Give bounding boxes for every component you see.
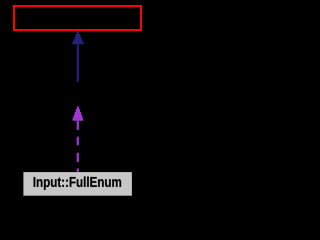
template relation arrow: dash segment 4 [77,169,79,172]
node label Input::FullEnum [34,176,122,189]
node Input::FullEnum (gray box) [23,172,131,196]
node: truncated base class (red box) [14,6,141,30]
inheritance arrow (midnightblue): stepped arrowhead [72,31,83,44]
inheritance arrow: shaft [77,44,79,81]
template relation arrow (darkorchid): stepped arrowhead [73,106,84,120]
template relation arrow: dash segment 2 [77,137,79,146]
template relation arrow: dash segment 1 (stub) [77,121,79,130]
template relation arrow: dash segment 3 [77,153,79,162]
